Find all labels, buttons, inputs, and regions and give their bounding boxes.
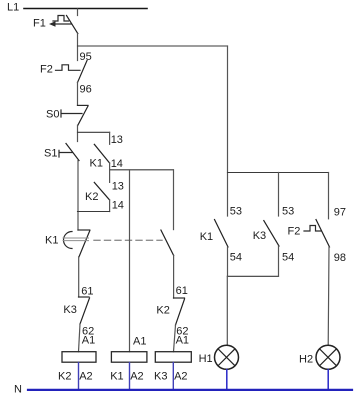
svg-text:A1: A1 [176, 335, 189, 347]
wire F1 to node 95 [77, 34, 79, 61]
svg-text:A2: A2 [79, 371, 92, 383]
svg-text:14: 14 [112, 200, 124, 212]
svg-text:13: 13 [111, 134, 123, 146]
wire coil K3 to N [172, 363, 174, 389]
contact K3 61-62 tick [79, 296, 90, 298]
wire K3-54 to junction y276 [278, 246, 280, 276]
wire K1 contact top terminal [109, 132, 111, 144]
lamp H2 [316, 345, 340, 369]
svg-text:53: 53 [282, 206, 294, 218]
coil K1 [111, 352, 146, 363]
breaker F1 release arrow [52, 23, 72, 25]
pushbutton S0 contact tick [78, 104, 89, 106]
svg-text:14: 14 [111, 158, 123, 170]
contact K2 61-62 blade NC [176, 299, 185, 325]
wire K3 coil branch top [173, 170, 175, 230]
pushbutton S1 plunger [59, 150, 72, 157]
pushbutton S0 plunger [61, 110, 82, 117]
svg-text:13: 13 [112, 181, 124, 193]
overload contact F2 thermal element [56, 65, 81, 71]
svg-text:F1: F1 [33, 18, 46, 30]
contact K1 13-14 blade NO [94, 144, 109, 163]
wire junction y46 to right branch [78, 45, 228, 47]
wire right branch vertical [227, 46, 229, 216]
wire 96 to S0 [77, 83, 79, 106]
wire timed contact to K2 NC [173, 255, 175, 298]
overload contact F2 blade 95-96 [78, 61, 88, 83]
coil K3 [155, 352, 191, 363]
svg-text:K2: K2 [58, 371, 71, 383]
contact K2 61-62 tick [174, 297, 185, 299]
svg-text:A1: A1 [133, 336, 146, 348]
timed contact K1 right blade [161, 230, 174, 255]
svg-text:K2: K2 [85, 191, 98, 203]
wire junction y276 [228, 275, 279, 277]
contact K3 61-62 blade NC [80, 298, 90, 324]
svg-text:K3: K3 [63, 304, 76, 316]
svg-text:54: 54 [230, 252, 242, 264]
wire coil K2 to N [78, 363, 80, 389]
svg-text:N: N [14, 384, 22, 396]
svg-text:A2: A2 [130, 371, 143, 383]
contact K3 53-54 blade NO [264, 221, 279, 246]
contact F2 97-98 thermal element [304, 226, 321, 232]
wire F2-98 to lamp H2 [327, 247, 330, 345]
svg-text:F2: F2 [40, 64, 53, 76]
contact F2 97-98 blade NO [316, 220, 330, 248]
wire L1 top rail [24, 8, 147, 10]
pushbutton S0 blade NC [78, 106, 88, 125]
wire S0 to junction 13 [77, 125, 79, 141]
wire to coil K3 [174, 325, 176, 352]
svg-text:K1: K1 [90, 158, 103, 170]
wire to coil K2 [79, 324, 81, 352]
lamp H1 [215, 345, 239, 369]
svg-text:53: 53 [230, 206, 242, 218]
breaker F1 thermal element [53, 16, 69, 22]
wire coil K1 to N [129, 363, 131, 389]
dashed mechanical link to right contact [94, 239, 162, 241]
svg-text:L1: L1 [7, 2, 19, 14]
svg-text:K1: K1 [45, 235, 58, 247]
svg-text:97: 97 [334, 207, 346, 219]
svg-text:A2: A2 [174, 371, 187, 383]
svg-text:98: 98 [334, 252, 346, 264]
timer K1 mechanical link [63, 238, 89, 241]
wire lamp H2 to N [327, 370, 329, 390]
svg-text:A1: A1 [82, 335, 95, 347]
svg-text:S1: S1 [44, 148, 57, 160]
wire S1 bottom to timer [77, 161, 79, 231]
wire junction y170 [110, 169, 174, 171]
wire junction y211 [78, 211, 110, 213]
svg-text:61: 61 [176, 285, 188, 297]
svg-text:96: 96 [80, 84, 92, 96]
svg-text:K3: K3 [154, 371, 167, 383]
wire F1 top terminal [77, 9, 79, 16]
svg-text:K1: K1 [200, 231, 213, 243]
svg-text:F2: F2 [288, 226, 301, 238]
svg-text:K1: K1 [110, 371, 123, 383]
wire lamp distribution y172 [228, 172, 329, 174]
svg-text:K3: K3 [253, 230, 266, 242]
wire K2-14 to junction y211 [109, 200, 111, 212]
wire K2 contact top terminal [109, 170, 111, 183]
wire junction y132 to K1 contact branch [78, 131, 110, 133]
wire F2 97 branch [328, 173, 330, 219]
svg-text:K2: K2 [156, 305, 169, 317]
timer contact K1 jog [78, 229, 90, 231]
wire K1-14 to junction y170 [109, 163, 111, 170]
wire lamp H1 to N [226, 370, 228, 390]
svg-text:61: 61 [81, 286, 93, 298]
timer contact K1 blade [79, 231, 90, 257]
svg-text:H1: H1 [199, 353, 213, 365]
svg-text:54: 54 [282, 252, 294, 264]
wire K3 53 branch [278, 173, 280, 217]
pushbutton S1 blade NO [66, 144, 79, 161]
wire timer bottom to K3 NC [78, 257, 80, 297]
svg-text:S0: S0 [46, 109, 59, 121]
contact K1 53-54 blade NO [215, 220, 229, 248]
wire K1-54 to junction y276 [227, 247, 229, 276]
svg-text:H2: H2 [299, 354, 313, 366]
wire N rail [28, 389, 352, 391]
timer K1 delay arc [64, 232, 72, 249]
svg-text:95: 95 [80, 51, 92, 63]
contact K2 13-14 blade NO [94, 182, 109, 200]
wire K1 coil branch [129, 170, 131, 352]
wire junction to lamp H1 [226, 276, 228, 345]
coil K2 [62, 352, 96, 363]
breaker F1 contact blade [67, 16, 78, 34]
